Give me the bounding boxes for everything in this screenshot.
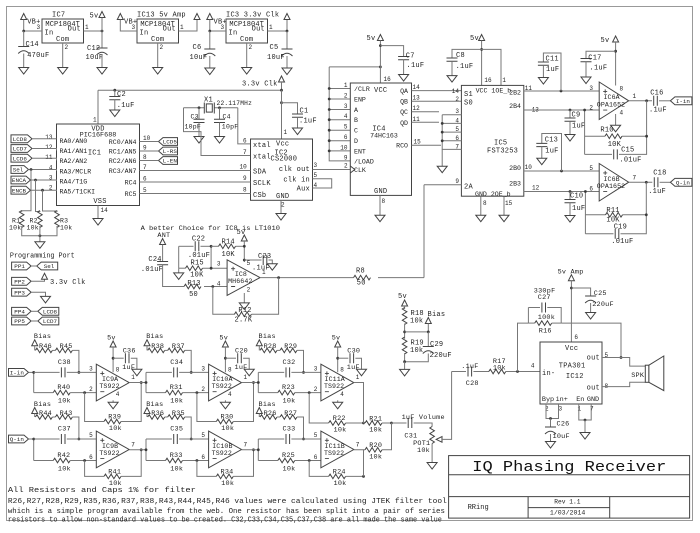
svg-text:R22: R22 — [333, 415, 346, 423]
svg-text:5v: 5v — [219, 335, 228, 343]
capacitor C26 — [545, 427, 556, 434]
wire bias arrow lead — [258, 414, 260, 418]
svg-text:C1: C1 — [300, 108, 309, 116]
svg-text:4: 4 — [217, 281, 221, 288]
svg-text:2: 2 — [314, 386, 318, 393]
wire pin 9 to L-RS — [140, 150, 159, 152]
svg-text:3: 3 — [217, 261, 221, 268]
svg-text:.1uF: .1uF — [117, 102, 135, 110]
wire C22/R15 left tie — [178, 246, 180, 268]
svg-text:2: 2 — [249, 44, 253, 51]
svg-text:S1: S1 — [464, 91, 473, 99]
resistor R28 — [260, 348, 277, 353]
svg-text:Bias: Bias — [428, 311, 446, 319]
svg-text:1uF: 1uF — [546, 66, 559, 74]
svg-text:X1: X1 — [204, 97, 213, 105]
wire IC1 RC3 to IC2 SDA — [140, 170, 251, 172]
wire QB to IC5 S0 — [412, 100, 462, 102]
op-amp IC10A TS922 — [209, 364, 242, 401]
wire between bias resistors — [165, 349, 168, 351]
svg-text:R11: R11 — [606, 207, 619, 215]
wire V- to ground — [112, 400, 114, 402]
svg-text:R33: R33 — [170, 452, 183, 460]
svg-text:R14: R14 — [222, 239, 235, 247]
power 3.3v Clk arrow (IC3 out) — [284, 14, 290, 20]
ground C4 — [215, 137, 225, 144]
resistor R23 — [278, 390, 295, 395]
svg-text:OPA1652: OPA1652 — [597, 101, 625, 108]
junction stage input — [257, 381, 260, 384]
svg-text:5: 5 — [201, 432, 205, 439]
wire to coupling cap — [146, 438, 172, 440]
svg-text:5: 5 — [589, 165, 593, 172]
resistor R15 — [186, 266, 203, 271]
capacitor C33 — [286, 434, 290, 444]
resistor R35 — [168, 415, 185, 420]
wire feedback right riser — [121, 383, 141, 422]
power Bias arrow (R46) — [32, 340, 38, 346]
junction bias/+ input — [190, 371, 193, 374]
svg-text:R28: R28 — [264, 343, 277, 351]
net tag LCD5 — [159, 138, 178, 146]
wire to ground — [39, 226, 41, 242]
wire IC8 out to R8 — [279, 277, 354, 279]
svg-text:10k: 10k — [27, 225, 39, 232]
capacitor C2 — [109, 97, 120, 100]
junction bias/+ input — [302, 438, 305, 441]
wire R22 to R21 — [364, 422, 366, 424]
svg-text:C3: C3 — [191, 113, 199, 120]
svg-text:VCC 1OE_b: VCC 1OE_b — [476, 88, 512, 95]
svg-text:C17: C17 — [588, 55, 601, 63]
power Bias arrow (R28) — [256, 340, 262, 346]
wire stage input tie — [257, 372, 259, 392]
svg-text:5: 5 — [89, 432, 93, 439]
svg-text:R2: R2 — [30, 218, 38, 225]
resistor R42 — [53, 458, 70, 463]
wire VB+ to IC13 In — [120, 20, 137, 32]
svg-text:clk out: clk out — [279, 166, 310, 174]
junction 5v/C7 — [379, 44, 382, 47]
capacitor C23 — [263, 255, 267, 265]
wire IC4 pin stub — [329, 150, 350, 152]
wire stage input tie — [145, 372, 147, 392]
wire down to C3 — [198, 108, 200, 120]
resistor R11 — [606, 213, 623, 218]
svg-text:16: 16 — [484, 77, 492, 84]
svg-text:D: D — [354, 138, 358, 145]
wire 5v to IC5 pin 1 — [482, 49, 501, 85]
svg-text:7: 7 — [131, 441, 135, 448]
svg-text:IC9B: IC9B — [102, 443, 118, 450]
svg-text:5: 5 — [344, 124, 348, 131]
wire to C9 — [569, 110, 571, 118]
junction - input/feedback — [308, 459, 311, 462]
svg-text:R8: R8 — [356, 268, 365, 276]
svg-text:8: 8 — [340, 366, 344, 373]
svg-text:2: 2 — [344, 163, 348, 170]
svg-text:1: 1 — [244, 374, 248, 381]
wire C26 to ground — [550, 434, 552, 442]
svg-text:10: 10 — [240, 164, 248, 171]
svg-text:VB+: VB+ — [27, 19, 40, 27]
wire IC5 pin stub — [442, 114, 461, 116]
wire to C29 — [427, 332, 429, 347]
svg-text:1: 1 — [633, 93, 637, 100]
wire PP2 to 3.3v Clk — [31, 279, 44, 281]
junction - input/feedback — [83, 391, 86, 394]
wire Sel to pin 4 — [29, 170, 57, 171]
ground IC5 inputs — [437, 166, 447, 173]
capacitor C3 — [194, 119, 205, 122]
ground C36 — [132, 369, 142, 376]
svg-text:C16: C16 — [650, 90, 663, 98]
svg-text:Byp: Byp — [542, 396, 554, 404]
svg-text:R24: R24 — [333, 469, 346, 477]
wire cap to + input — [67, 438, 97, 440]
clock generator IC2 CS2000 — [251, 139, 313, 200]
resistor R1 — [19, 211, 24, 228]
svg-text:RA0/AN0: RA0/AN0 — [60, 138, 88, 145]
power Bias arrow (R38) — [144, 340, 150, 346]
counter IC4 74HC163 — [350, 83, 411, 195]
junction IC4 tie — [328, 118, 331, 121]
wire IC6A feedback left riser — [584, 110, 586, 154]
ground IC11A V- — [333, 402, 343, 409]
capacitor C4 — [214, 119, 225, 122]
resistor R33 — [166, 458, 183, 463]
svg-text:10k: 10k — [369, 453, 382, 461]
wire IC12 pins 2,3 tie — [546, 404, 559, 419]
svg-text:10K: 10K — [608, 141, 622, 149]
wire VB+ to IC7 In — [24, 30, 42, 32]
svg-text:OPA1652: OPA1652 — [597, 183, 625, 190]
svg-text:10uF: 10uF — [86, 54, 104, 62]
svg-text:10k: 10k — [9, 225, 21, 232]
svg-text:8: 8 — [243, 187, 247, 194]
svg-text:.1uF: .1uF — [649, 107, 667, 115]
wire PP3 to ground — [31, 292, 45, 296]
svg-text:7: 7 — [356, 441, 360, 448]
svg-text:10k: 10k — [170, 466, 183, 474]
svg-text:IC8: IC8 — [235, 271, 247, 278]
power 5v arrow (IC8) — [241, 235, 247, 241]
svg-text:I-in: I-in — [10, 370, 25, 377]
svg-text:IC7: IC7 — [52, 12, 65, 20]
wire PP4 to LCD8 — [31, 310, 38, 312]
svg-text:10k: 10k — [334, 480, 347, 488]
wire 3.3v Clk rail horizontal — [98, 89, 282, 91]
net tag I-in (input) — [9, 369, 29, 377]
svg-text:6: 6 — [89, 454, 93, 461]
svg-text:R16: R16 — [539, 327, 552, 335]
svg-text:MH6642: MH6642 — [228, 278, 252, 285]
svg-text:R30: R30 — [221, 414, 234, 422]
resistor R3 — [55, 211, 60, 228]
wire QD stub — [412, 121, 440, 123]
svg-text:GND: GND — [587, 396, 599, 404]
wire C22 left lead — [179, 245, 194, 247]
wire R1 R3 bottoms tied — [22, 226, 57, 236]
power 5v arrow (IC10A) — [222, 341, 228, 347]
svg-text:RC4: RC4 — [125, 180, 137, 187]
junction stage input — [145, 448, 148, 451]
wire 5v to op-amp V+ — [112, 347, 114, 372]
net tag PP2 — [12, 277, 32, 285]
svg-text:1: 1 — [356, 374, 360, 381]
junction 5vAmp/C25 — [570, 287, 573, 290]
ground C12 — [97, 68, 107, 75]
svg-text:In: In — [140, 30, 149, 38]
wire bias to + input — [185, 350, 192, 372]
svg-text:.1uF: .1uF — [299, 118, 317, 126]
wire QA to IC5 S1 — [412, 90, 462, 92]
svg-text:10uF: 10uF — [553, 433, 570, 441]
ground IC12 — [580, 433, 590, 440]
svg-text:Bias: Bias — [259, 333, 276, 341]
resistor R17 — [489, 369, 506, 374]
wire R11 right lead — [623, 214, 647, 216]
ground C10 — [565, 216, 575, 223]
junction out5/feedback — [620, 356, 623, 359]
wire between bias resistors — [52, 349, 55, 351]
svg-text:1/03/2014: 1/03/2014 — [550, 509, 585, 516]
svg-text:IC11A: IC11A — [325, 376, 345, 383]
wire C13 to ground — [541, 147, 543, 159]
svg-text:10k: 10k — [58, 466, 71, 474]
svg-text:R40: R40 — [57, 384, 70, 392]
power 5v arrow — [99, 12, 105, 18]
svg-text:RC2/AN6: RC2/AN6 — [109, 158, 137, 165]
junction summing — [390, 422, 393, 425]
svg-text:11: 11 — [413, 116, 421, 123]
svg-text:14: 14 — [413, 84, 421, 91]
wire to ground — [584, 420, 586, 433]
wire IC7 com to ground — [62, 43, 64, 68]
wire feedback right riser — [121, 450, 141, 477]
junction IC6B - / feedback — [584, 190, 587, 193]
wire IC5 pin stub — [442, 140, 461, 142]
svg-text:10K: 10K — [190, 272, 204, 280]
junction 5v/R14 — [243, 245, 246, 248]
op-amp IC6B — [597, 164, 629, 202]
svg-text:Q-in: Q-in — [676, 180, 691, 187]
ground pull resistors — [35, 242, 45, 249]
wire C11 jog — [543, 53, 561, 91]
junction stage input — [32, 438, 35, 441]
junction C22/R14 — [210, 245, 213, 248]
svg-text:10k: 10k — [369, 427, 382, 435]
resistor R10 — [605, 134, 622, 139]
wire to C23 — [244, 259, 261, 261]
junction ENCB/R3 — [41, 189, 44, 192]
svg-text:8: 8 — [143, 154, 147, 161]
wire IC1 VSS to ground — [97, 206, 99, 219]
wire bias to + input — [185, 417, 192, 439]
svg-text:C35: C35 — [170, 426, 183, 434]
svg-text:5: 5 — [314, 432, 318, 439]
wire R17 to IC12 in- — [506, 371, 540, 373]
wire down to C6 — [209, 31, 211, 49]
junction resistor bottoms — [39, 234, 42, 237]
resistor R8 — [354, 275, 371, 280]
svg-text:2B4: 2B4 — [509, 103, 521, 110]
wire 3.3v to IC2 Vcc pin 1 — [281, 90, 283, 139]
wire to coupling cap — [258, 371, 284, 373]
svg-text:10uF: 10uF — [190, 54, 208, 62]
junction Sel/R1 — [30, 168, 33, 171]
wire 5v to op-amp V+ — [224, 347, 226, 372]
wire stage input tie — [145, 439, 147, 461]
svg-text:3: 3 — [314, 365, 318, 372]
wire to bypass cap — [225, 357, 236, 359]
junction R10/riser — [645, 135, 648, 138]
svg-text:R36: R36 — [151, 410, 164, 418]
wire ENCA to R2 — [36, 180, 40, 212]
junction R15 tie — [210, 267, 213, 270]
wire resistor to - input — [70, 460, 96, 462]
ground C17 — [581, 77, 591, 84]
net tag ENCB — [11, 186, 31, 194]
svg-text:4: 4 — [49, 164, 53, 171]
svg-text:3: 3 — [314, 162, 318, 169]
junction C3/crystal — [198, 106, 201, 109]
resistor R18 — [402, 308, 407, 325]
VB+ arrow IC7 — [21, 14, 27, 20]
svg-text:C6: C6 — [193, 44, 202, 52]
svg-text:C32: C32 — [283, 359, 296, 367]
svg-text:10: 10 — [525, 164, 533, 171]
junction stage input — [257, 448, 260, 451]
wire IC1 RC4 to IC2 SCLK — [140, 181, 251, 183]
wire cap to + input — [179, 371, 209, 373]
svg-text:10k: 10k — [334, 427, 347, 435]
wire R10 right lead — [622, 135, 647, 137]
svg-text:TS922: TS922 — [212, 383, 232, 390]
svg-text:10: 10 — [340, 144, 348, 151]
svg-text:3: 3 — [89, 365, 93, 372]
VB+ arrow IC13 — [117, 14, 123, 20]
svg-text:R46: R46 — [39, 343, 52, 351]
wire to bypass cap — [113, 357, 124, 359]
svg-text:R10: R10 — [600, 127, 613, 135]
resistor R38 — [148, 348, 165, 353]
svg-text:R3: R3 — [60, 218, 68, 225]
svg-text:1uF: 1uF — [572, 205, 585, 213]
op-amp IC10B TS922 — [209, 431, 242, 468]
junction R18/R19 — [403, 331, 406, 334]
wire bypass cap to ground — [355, 358, 361, 369]
svg-text:10K: 10K — [222, 251, 236, 259]
svg-text:Q-in: Q-in — [10, 436, 25, 443]
wire out 5 to speaker — [602, 358, 645, 367]
svg-text:C2: C2 — [117, 91, 126, 99]
net tag PP1 — [12, 262, 32, 270]
power 5v Amp arrow (IC12) — [568, 275, 574, 281]
ground IC5 pin 15 — [499, 215, 509, 222]
resistor R39 — [104, 419, 121, 424]
wire Sel to R1 — [22, 170, 31, 213]
ground C26 — [546, 442, 556, 449]
svg-text:LCD7: LCD7 — [43, 318, 58, 325]
svg-text:VB+: VB+ — [214, 19, 227, 27]
wire C23 to ground — [269, 260, 273, 264]
ground C30 — [357, 369, 367, 376]
wire resistor to - input — [183, 392, 209, 394]
svg-text:10k: 10k — [410, 347, 423, 355]
net tag PP3 — [12, 288, 32, 296]
net tag LCD7 (PP5) — [38, 317, 59, 325]
wire IC4 pins tie vertical — [329, 89, 350, 161]
svg-text:Sel: Sel — [13, 167, 24, 174]
svg-text:1: 1 — [93, 117, 97, 124]
svg-text:RC1/AN5: RC1/AN5 — [109, 149, 137, 156]
svg-text:R1: R1 — [12, 218, 20, 225]
ground C8 — [447, 76, 457, 83]
junction R13/R12 — [211, 285, 214, 288]
svg-text:3: 3 — [559, 406, 563, 413]
ground C11 — [538, 78, 548, 85]
svg-text:7: 7 — [244, 441, 248, 448]
wire IC8 output — [260, 277, 279, 279]
wire C22/R15 right tie — [210, 246, 212, 268]
svg-text:.01uF: .01uF — [141, 266, 163, 274]
wire 5v down to IC8 pin 5 — [243, 241, 245, 262]
svg-text:IC1: IC1 — [88, 150, 101, 158]
svg-text:RA5/T1CKI: RA5/T1CKI — [60, 188, 96, 195]
wire to ground — [404, 362, 406, 370]
ground C22/R15 — [174, 273, 184, 280]
svg-text:R15: R15 — [191, 260, 204, 268]
svg-text:IC5: IC5 — [494, 140, 507, 148]
junction C4/crystal — [218, 106, 221, 109]
power 5v Amp arrow (IC13 out) — [194, 14, 200, 20]
svg-text:MCP1804T: MCP1804T — [140, 21, 175, 29]
wire C29 bottom tie — [405, 354, 429, 362]
svg-text:IC3 3.3v Clk: IC3 3.3v Clk — [226, 12, 279, 20]
wire IC5 2B0 to IC6B + — [524, 170, 599, 172]
svg-text:I-in: I-in — [676, 98, 691, 105]
wire IC5 GND pin 8 — [480, 196, 482, 215]
svg-text:10k: 10k — [283, 398, 296, 406]
svg-text:xtal: xtal — [253, 154, 271, 162]
junction IC4 tie — [328, 87, 331, 90]
wire stage output — [242, 449, 259, 451]
svg-text:R31: R31 — [170, 384, 183, 392]
svg-text:LCD7: LCD7 — [13, 146, 28, 153]
wire bias to + input — [72, 417, 79, 439]
svg-text:PP1: PP1 — [14, 263, 25, 270]
svg-text:/CLR: /CLR — [354, 86, 370, 93]
svg-text:IC6B: IC6B — [603, 176, 619, 183]
wire IC6A pin 4 to ground — [615, 114, 617, 125]
svg-text:C4: C4 — [223, 113, 231, 120]
svg-text:2.7K: 2.7K — [235, 317, 253, 325]
net tag PP5 — [12, 317, 32, 325]
wire bias to + input — [297, 350, 304, 372]
svg-text:4: 4 — [620, 110, 624, 117]
svg-text:C31: C31 — [404, 432, 417, 440]
wire V- to ground — [337, 400, 339, 402]
svg-text:2: 2 — [247, 286, 251, 293]
svg-text:1: 1 — [578, 406, 582, 413]
junction En/GND — [584, 419, 587, 422]
mux IC5 FST3253 — [461, 85, 523, 196]
svg-text:6: 6 — [589, 186, 593, 193]
capacitor C22 — [195, 241, 199, 251]
wire IC11B out to R20 — [364, 449, 366, 451]
svg-text:R43: R43 — [60, 410, 73, 418]
